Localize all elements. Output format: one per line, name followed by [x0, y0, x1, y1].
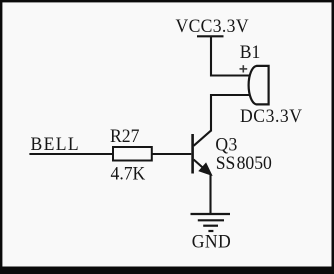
power rail VCC3.3V bar: [197, 35, 224, 37]
wire from emitter down to ground: [209, 174, 211, 214]
ground: [191, 214, 231, 231]
polarity + mark: [240, 65, 248, 72]
wire from resistor R27 to transistor base: [152, 153, 192, 155]
wire from buzzer bottom pin down to transistor collector: [211, 95, 250, 132]
svg-text:GND: GND: [192, 231, 231, 252]
wire from BELL to resistor R27: [29, 153, 113, 155]
svg-text:VCC3.3V: VCC3.3V: [176, 15, 250, 36]
buzzer B1: [249, 66, 269, 105]
svg-text:R27: R27: [110, 125, 139, 146]
wire from VCC bar down to buzzer top pin: [211, 36, 250, 75]
svg-text:BELL: BELL: [31, 133, 80, 154]
svg-text:DC3.3V: DC3.3V: [240, 105, 303, 126]
resistor R27: [113, 147, 152, 161]
transistor Q3: [191, 131, 211, 175]
svg-text:4.7K: 4.7K: [111, 163, 146, 184]
svg-text:SS8050: SS8050: [216, 152, 272, 173]
svg-text:B1: B1: [240, 41, 261, 62]
